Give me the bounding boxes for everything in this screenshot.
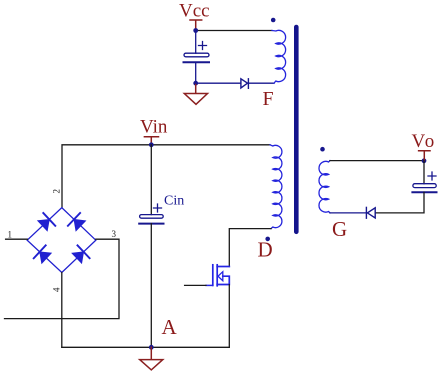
ground Vcc bbox=[184, 83, 207, 104]
wire lower Vcc node to diode bbox=[196, 82, 241, 84]
capacitor Cin bbox=[139, 204, 163, 224]
bridge diode BL bbox=[34, 245, 51, 262]
svg-text:Cin: Cin bbox=[164, 194, 184, 209]
diode DF bbox=[241, 79, 249, 89]
diode DG bbox=[366, 207, 375, 218]
bridge diode BR bbox=[73, 245, 90, 262]
wire diode to F winding bottom bbox=[248, 82, 274, 84]
terminal Vin bbox=[144, 137, 158, 145]
svg-text:1: 1 bbox=[8, 229, 13, 239]
winding G secondary bbox=[319, 161, 330, 213]
bridge diode TR bbox=[68, 213, 85, 230]
node Vcc bbox=[193, 28, 198, 33]
svg-text:Vcc: Vcc bbox=[179, 0, 210, 21]
wire Cin to bottom rail bbox=[150, 224, 152, 348]
wire Vo node to output cap bbox=[423, 161, 425, 184]
capacitor Co bbox=[412, 172, 436, 192]
wire Vin node to Cin bbox=[150, 145, 152, 215]
wire Vin rail bbox=[62, 145, 270, 208]
wire Vcc node to capacitor bbox=[195, 31, 197, 54]
ground A bbox=[140, 347, 163, 370]
wire gate lead bbox=[206, 284, 213, 286]
wire stub node 1 bbox=[6, 238, 28, 240]
wire capacitor to lower Vcc node bbox=[195, 62, 197, 83]
terminal Vcc bbox=[190, 20, 202, 31]
wire node 3 loop bbox=[5, 239, 120, 318]
wire winding D bottom to MOSFET drain bbox=[229, 229, 271, 267]
wire Vcc node to F winding top bbox=[196, 30, 272, 32]
bridge diode TL bbox=[38, 213, 55, 230]
wire secondary top rail bbox=[330, 160, 424, 162]
capacitor C-Vcc bbox=[184, 42, 210, 63]
wire MOSFET source to bottom rail bbox=[228, 285, 230, 348]
wire node 4 down bbox=[61, 273, 63, 348]
polarity dot F bbox=[271, 18, 276, 23]
node Vo bbox=[422, 158, 427, 163]
wire bottom rail bbox=[62, 346, 230, 348]
bridge rectifier frame bbox=[27, 208, 96, 273]
svg-text:4: 4 bbox=[52, 287, 62, 292]
svg-text:F: F bbox=[263, 88, 274, 110]
terminal Vo bbox=[419, 151, 430, 161]
node A bbox=[149, 345, 154, 350]
svg-text:Vin: Vin bbox=[140, 117, 168, 138]
node Vin bbox=[149, 142, 154, 147]
polarity dot D bbox=[265, 237, 270, 242]
wire diode to winding G bottom bbox=[330, 212, 366, 214]
svg-text:A: A bbox=[162, 315, 178, 339]
transistor Q1 MOSFET bbox=[213, 265, 230, 286]
svg-text:D: D bbox=[258, 238, 273, 262]
wire cap to secondary bottom rail bbox=[375, 192, 424, 213]
svg-text:G: G bbox=[332, 217, 347, 241]
polarity dot G bbox=[320, 147, 325, 152]
svg-text:3: 3 bbox=[112, 229, 117, 239]
transformer core bbox=[294, 27, 299, 232]
node Vcc lower bbox=[193, 81, 198, 86]
svg-text:2: 2 bbox=[52, 189, 62, 194]
winding D primary bbox=[270, 145, 282, 229]
winding F bbox=[272, 30, 286, 83]
svg-text:Vo: Vo bbox=[412, 131, 437, 152]
